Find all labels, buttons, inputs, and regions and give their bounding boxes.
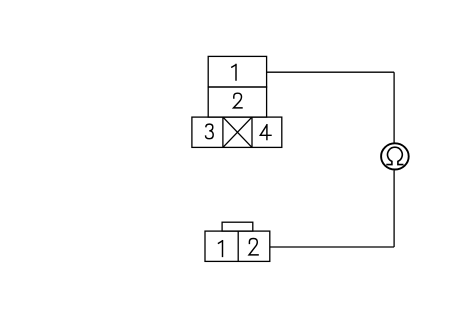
divider between pin 3 and blank cavity [222, 117, 224, 147]
wire bottom horizontal segment to connector X2 pin 2 [270, 246, 394, 248]
connector X1 cavity pin 1 [208, 56, 266, 87]
pin number 1 (connector X2) [219, 241, 223, 257]
pin number 3 (connector X1) [206, 124, 214, 139]
connector X1 cavity pin 2 [208, 87, 266, 117]
divider between X2 pin 1 and pin 2 [237, 231, 239, 261]
connector X2 housing [205, 231, 270, 261]
pin number 2 (connector X1) [234, 93, 243, 108]
wire from pin 1 to ohmmeter (top horizontal segment) [267, 71, 395, 73]
blank cavity X cross diagonal 1 [223, 117, 252, 147]
connector X1 lower row (pins 3, blank, 4) [192, 117, 282, 147]
blank cavity X cross diagonal 2 [223, 117, 252, 147]
ohmmeter M1 circle [381, 143, 409, 169]
divider between blank cavity and pin 4 [251, 117, 253, 147]
ohmmeter M1 ohm symbol [386, 147, 403, 164]
connector X2 locking tab [222, 222, 253, 231]
pin number 2 (connector X2) [249, 239, 258, 255]
pin number 1 (connector X1) [232, 65, 236, 81]
wire right vertical lower segment [393, 171, 395, 248]
pin number 4 (connector X1) [260, 125, 271, 140]
wire right vertical upper segment [393, 72, 395, 143]
